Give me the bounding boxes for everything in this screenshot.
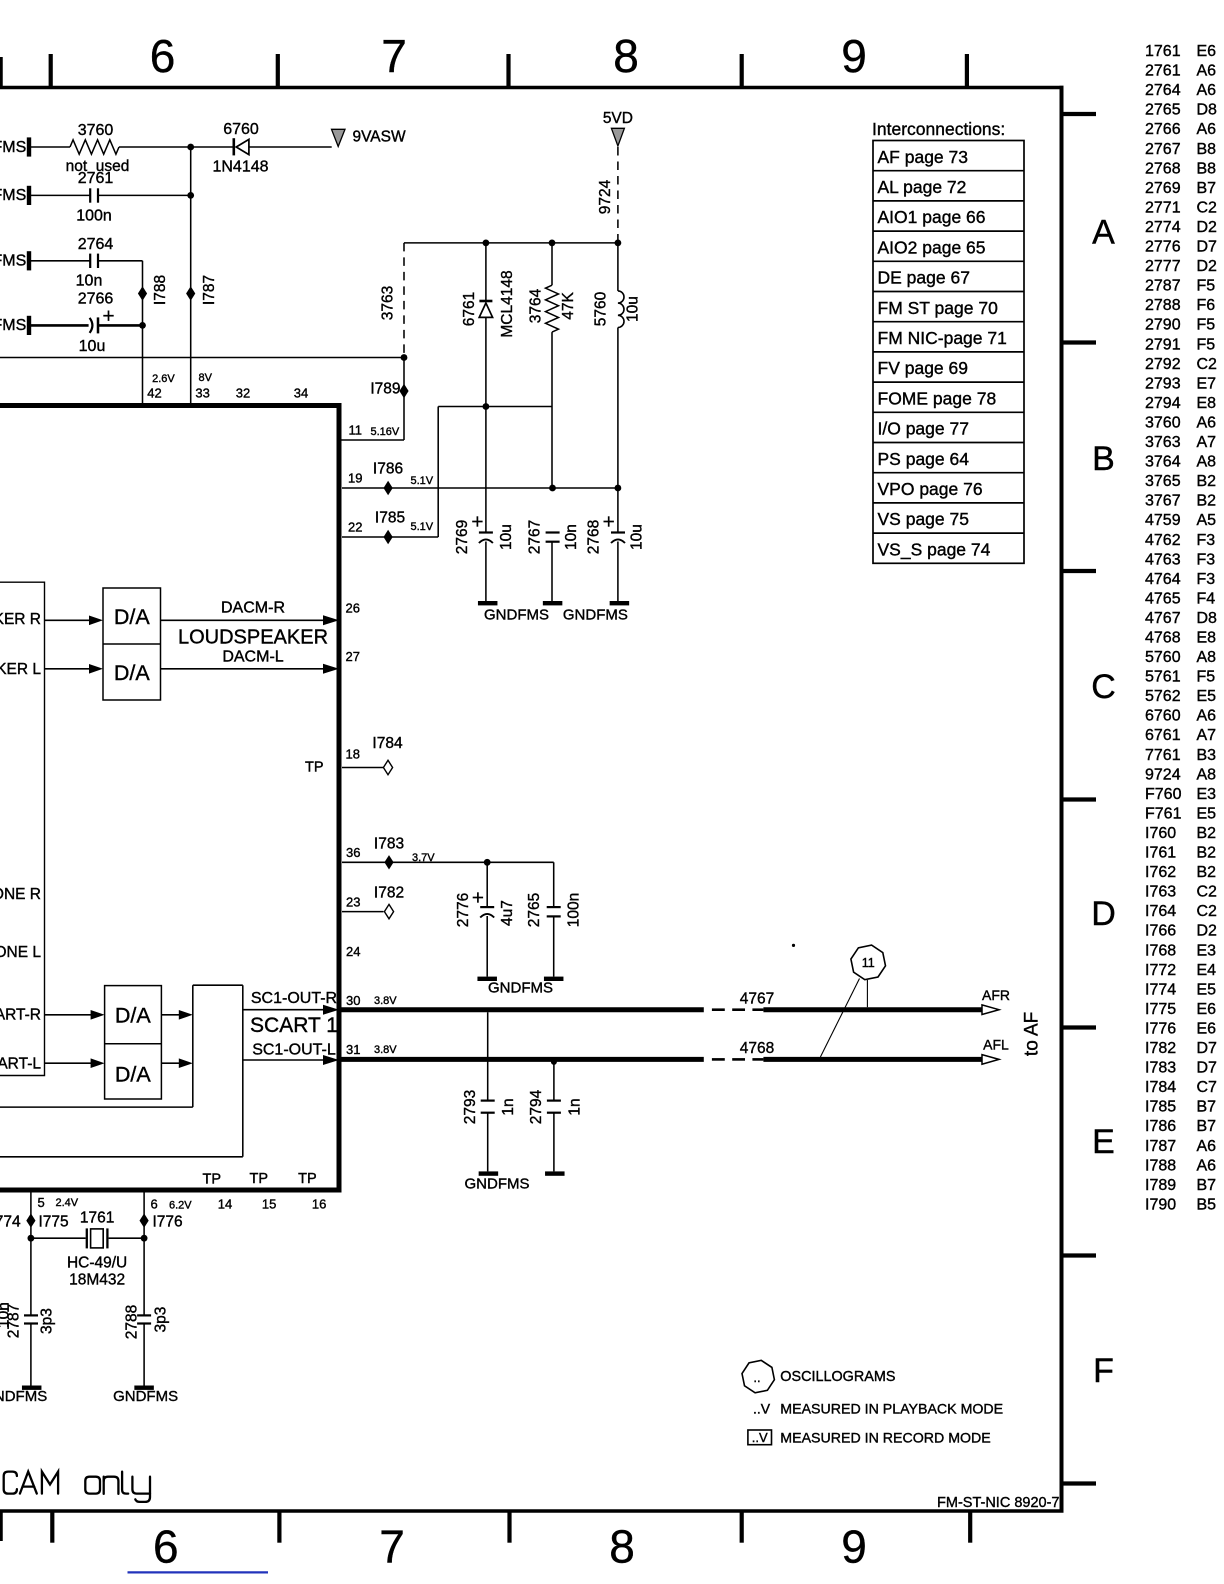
svg-text:4767: 4767	[740, 991, 774, 1008]
svg-text:5762: 5762	[1145, 688, 1181, 705]
svg-text:2765: 2765	[526, 893, 543, 927]
svg-text:I775: I775	[39, 1214, 69, 1231]
svg-text:..V: ..V	[752, 1430, 768, 1445]
svg-text:A: A	[1092, 214, 1115, 252]
svg-text:2790: 2790	[1145, 317, 1181, 334]
svg-text:I786: I786	[373, 461, 403, 478]
svg-text:FOME page 78: FOME page 78	[878, 388, 997, 408]
svg-text:..: ..	[753, 1370, 760, 1385]
svg-text:C2: C2	[1197, 884, 1218, 901]
svg-text:F3: F3	[1197, 571, 1216, 588]
svg-text:ONE L: ONE L	[0, 944, 41, 961]
svg-text:9724: 9724	[597, 179, 614, 214]
svg-text:7: 7	[381, 30, 407, 82]
svg-text:1761: 1761	[80, 1210, 114, 1227]
svg-text:2767: 2767	[1145, 141, 1181, 158]
svg-text:I787: I787	[201, 275, 218, 305]
svg-text:6761: 6761	[461, 292, 478, 326]
svg-text:2761: 2761	[78, 170, 114, 187]
svg-text:DE page 67: DE page 67	[878, 268, 970, 288]
svg-text:B2: B2	[1197, 493, 1217, 510]
svg-text:2764: 2764	[78, 236, 114, 253]
svg-text:5VD: 5VD	[603, 110, 633, 127]
svg-text:I768: I768	[1145, 942, 1176, 959]
svg-text:I/O page 77: I/O page 77	[878, 419, 969, 439]
svg-text:10n: 10n	[0, 1302, 12, 1328]
svg-text:31: 31	[346, 1042, 360, 1057]
svg-text:33: 33	[195, 386, 209, 401]
svg-text:ART-R: ART-R	[0, 1007, 41, 1024]
svg-text:6: 6	[151, 1197, 158, 1212]
svg-text:1n: 1n	[566, 1098, 583, 1115]
svg-text:18: 18	[346, 747, 360, 762]
svg-text:1761: 1761	[1145, 43, 1181, 60]
svg-text:4763: 4763	[1145, 551, 1181, 568]
svg-text:FM ST page 70: FM ST page 70	[878, 298, 999, 318]
svg-text:2768: 2768	[1145, 160, 1181, 177]
svg-text:I775: I775	[1145, 1001, 1176, 1018]
svg-text:3.8V: 3.8V	[374, 995, 397, 1007]
svg-text:GNDFMS: GNDFMS	[484, 607, 549, 624]
svg-text:5760: 5760	[1145, 649, 1181, 666]
svg-text:3.7V: 3.7V	[412, 852, 435, 864]
svg-text:2769: 2769	[1145, 180, 1181, 197]
svg-text:I788: I788	[152, 275, 169, 305]
svg-text:42: 42	[147, 386, 161, 401]
svg-text:1N4148: 1N4148	[212, 159, 268, 176]
svg-text:32: 32	[236, 386, 250, 401]
svg-text:F5: F5	[1197, 336, 1216, 353]
svg-text:A6: A6	[1197, 708, 1217, 725]
svg-text:E5: E5	[1197, 805, 1217, 822]
svg-text:FM-ST-NIC 8920-7: FM-ST-NIC 8920-7	[937, 1495, 1059, 1511]
svg-text:I766: I766	[1145, 923, 1176, 940]
svg-text:10u: 10u	[624, 296, 641, 322]
svg-text:2774: 2774	[1145, 219, 1181, 236]
svg-text:A7: A7	[1197, 727, 1217, 744]
svg-text:5: 5	[38, 1195, 45, 1210]
svg-text:A8: A8	[1197, 766, 1217, 783]
svg-text:F: F	[1093, 1352, 1114, 1390]
svg-text:4768: 4768	[740, 1040, 774, 1057]
svg-text:FV page 69: FV page 69	[878, 358, 968, 378]
svg-text:24: 24	[346, 944, 360, 959]
svg-text:2776: 2776	[455, 893, 472, 927]
svg-text:B5: B5	[1197, 1196, 1217, 1213]
svg-text:4765: 4765	[1145, 590, 1181, 607]
svg-text:C: C	[1091, 668, 1116, 706]
svg-text:5.1V: 5.1V	[411, 521, 434, 533]
svg-text:I782: I782	[374, 885, 404, 902]
svg-text:47K: 47K	[560, 292, 577, 320]
svg-text:B2: B2	[1197, 825, 1217, 842]
svg-text:2767: 2767	[526, 520, 543, 554]
svg-text:A6: A6	[1197, 1157, 1217, 1174]
svg-text:B7: B7	[1197, 180, 1217, 197]
svg-text:4762: 4762	[1145, 532, 1181, 549]
svg-text:AFR: AFR	[982, 987, 1010, 1003]
svg-text:B2: B2	[1197, 845, 1217, 862]
svg-text:A6: A6	[1197, 121, 1217, 138]
svg-text:SC1-OUT-L: SC1-OUT-L	[252, 1042, 336, 1059]
svg-text:E7: E7	[1197, 375, 1217, 392]
svg-text:E4: E4	[1197, 962, 1217, 979]
svg-text:AF page 73: AF page 73	[878, 147, 968, 167]
svg-text:MEASURED IN PLAYBACK MODE: MEASURED IN PLAYBACK MODE	[780, 1402, 1003, 1418]
svg-text:to AF: to AF	[1022, 1012, 1043, 1056]
svg-text:4768: 4768	[1145, 630, 1181, 647]
svg-text:23: 23	[346, 895, 360, 910]
svg-text:2791: 2791	[1145, 336, 1181, 353]
svg-text:B8: B8	[1197, 141, 1217, 158]
svg-text:I774: I774	[1145, 981, 1176, 998]
svg-text:E6: E6	[1197, 1021, 1217, 1038]
svg-text:AL page 72: AL page 72	[878, 177, 967, 197]
svg-text:C7: C7	[1197, 1079, 1218, 1096]
svg-text:VPO page 76: VPO page 76	[878, 479, 983, 499]
svg-text:3.8V: 3.8V	[374, 1044, 397, 1056]
svg-text:D7: D7	[1197, 239, 1218, 256]
svg-text:8V: 8V	[198, 372, 212, 384]
svg-text:3767: 3767	[1145, 493, 1181, 510]
svg-text:I776: I776	[1145, 1021, 1176, 1038]
svg-text:5.1V: 5.1V	[411, 475, 434, 487]
svg-text:2794: 2794	[528, 1089, 545, 1124]
svg-text:2769: 2769	[454, 520, 471, 554]
svg-text:KER L: KER L	[0, 661, 41, 678]
svg-text:D8: D8	[1197, 102, 1218, 119]
svg-text:B: B	[1092, 440, 1115, 478]
svg-text:I760: I760	[1145, 825, 1176, 842]
svg-text:DACM-R: DACM-R	[221, 600, 285, 617]
svg-text:2792: 2792	[1145, 356, 1181, 373]
svg-text:15: 15	[262, 1197, 276, 1212]
svg-text:I783: I783	[1145, 1060, 1176, 1077]
svg-text:B8: B8	[1197, 160, 1217, 177]
svg-text:I788: I788	[1145, 1157, 1176, 1174]
svg-text:A8: A8	[1197, 454, 1217, 471]
svg-text:E: E	[1092, 1123, 1115, 1161]
svg-text:3765: 3765	[1145, 473, 1181, 490]
svg-text:I761: I761	[1145, 845, 1176, 862]
svg-text:8: 8	[609, 1521, 635, 1573]
svg-text:7761: 7761	[1145, 747, 1181, 764]
svg-text:3p3: 3p3	[39, 1308, 56, 1334]
svg-text:HC-49/U: HC-49/U	[67, 1254, 127, 1271]
svg-text:7: 7	[379, 1521, 405, 1573]
svg-text:6760: 6760	[223, 121, 259, 138]
svg-text:FMS: FMS	[0, 253, 26, 270]
svg-text:A6: A6	[1197, 63, 1217, 80]
svg-text:B7: B7	[1197, 1177, 1217, 1194]
svg-text:1n: 1n	[500, 1098, 517, 1115]
svg-text:TP: TP	[203, 1172, 222, 1188]
svg-text:AIO2 page 65: AIO2 page 65	[878, 237, 986, 257]
svg-text:5760: 5760	[592, 291, 609, 326]
svg-text:B2: B2	[1197, 473, 1217, 490]
svg-text:I772: I772	[1145, 962, 1176, 979]
svg-text:FMS: FMS	[0, 317, 26, 334]
svg-text:E8: E8	[1197, 630, 1217, 647]
svg-text:9: 9	[841, 1521, 867, 1573]
svg-text:6761: 6761	[1145, 727, 1181, 744]
svg-text:C2: C2	[1197, 356, 1218, 373]
svg-text:9: 9	[841, 30, 867, 82]
svg-text:3763: 3763	[379, 286, 396, 320]
svg-text:3764: 3764	[527, 288, 544, 323]
svg-text:34: 34	[294, 386, 308, 401]
svg-text:TP: TP	[305, 760, 324, 776]
svg-text:2793: 2793	[462, 1090, 479, 1124]
svg-text:D2: D2	[1197, 923, 1218, 940]
svg-text:5.16V: 5.16V	[371, 426, 400, 438]
svg-text:TP: TP	[250, 1171, 269, 1187]
svg-text:LOUDSPEAKER: LOUDSPEAKER	[178, 627, 328, 649]
svg-text:30: 30	[346, 993, 360, 1008]
svg-text:F3: F3	[1197, 532, 1216, 549]
svg-text:26: 26	[346, 600, 360, 615]
svg-text:E3: E3	[1197, 942, 1217, 959]
svg-text:I787: I787	[1145, 1138, 1176, 1155]
svg-text:100n: 100n	[565, 893, 582, 927]
svg-text:OSCILLOGRAMS: OSCILLOGRAMS	[780, 1369, 895, 1385]
svg-text:6: 6	[153, 1521, 179, 1573]
svg-text:C2: C2	[1197, 199, 1218, 216]
svg-text:E3: E3	[1197, 786, 1217, 803]
svg-text:F761: F761	[1145, 805, 1182, 822]
svg-text:4u7: 4u7	[499, 900, 516, 926]
svg-text:A5: A5	[1197, 512, 1217, 529]
svg-text:10u: 10u	[79, 338, 106, 355]
svg-text:E5: E5	[1197, 981, 1217, 998]
svg-text:100n: 100n	[76, 208, 112, 225]
svg-text:A8: A8	[1197, 649, 1217, 666]
svg-text:2766: 2766	[1145, 121, 1181, 138]
svg-text:2788: 2788	[123, 1305, 140, 1339]
svg-text:VS page 75: VS page 75	[878, 509, 969, 529]
svg-text:2771: 2771	[1145, 199, 1181, 216]
svg-text:DACM-L: DACM-L	[222, 649, 283, 666]
svg-text:TP: TP	[298, 1171, 317, 1187]
svg-text:MCL4148: MCL4148	[499, 270, 516, 337]
svg-text:GNDFMS: GNDFMS	[113, 1388, 178, 1405]
svg-text:D/A: D/A	[114, 661, 151, 685]
svg-text:VS_S page 74: VS_S page 74	[878, 539, 991, 560]
svg-text:19: 19	[348, 471, 362, 486]
svg-text:4767: 4767	[1145, 610, 1181, 627]
svg-text:22: 22	[348, 520, 362, 535]
svg-text:GNDFMS: GNDFMS	[465, 1175, 530, 1192]
svg-text:2787: 2787	[1145, 278, 1181, 295]
svg-text:AFL: AFL	[983, 1037, 1009, 1053]
svg-text:FMS: FMS	[0, 139, 26, 156]
svg-text:I789: I789	[1145, 1177, 1176, 1194]
svg-text:MEASURED IN RECORD MODE: MEASURED IN RECORD MODE	[780, 1431, 990, 1447]
svg-text:A6: A6	[1197, 82, 1217, 99]
svg-text:10u: 10u	[498, 524, 515, 550]
svg-text:..V: ..V	[753, 1401, 771, 1417]
svg-text:18M432: 18M432	[69, 1271, 125, 1288]
svg-text:27: 27	[346, 649, 360, 664]
svg-text:A6: A6	[1197, 1138, 1217, 1155]
svg-text:I785: I785	[375, 510, 405, 527]
svg-text:2793: 2793	[1145, 375, 1181, 392]
svg-text:B3: B3	[1197, 747, 1217, 764]
svg-text:I764: I764	[1145, 903, 1176, 920]
svg-text:F6: F6	[1197, 297, 1216, 314]
svg-text:2765: 2765	[1145, 102, 1181, 119]
svg-text:AIO1 page 66: AIO1 page 66	[878, 207, 986, 227]
svg-text:11: 11	[862, 956, 875, 970]
svg-text:9724: 9724	[1145, 766, 1181, 783]
svg-text:14: 14	[218, 1197, 232, 1212]
svg-text:10u: 10u	[628, 524, 645, 550]
svg-text:I762: I762	[1145, 864, 1176, 881]
svg-text:PS page 64: PS page 64	[878, 449, 970, 469]
svg-text:B7: B7	[1197, 1099, 1217, 1116]
svg-text:3760: 3760	[1145, 415, 1181, 432]
svg-text:E6: E6	[1197, 43, 1217, 60]
svg-text:2788: 2788	[1145, 297, 1181, 314]
svg-text:I785: I785	[1145, 1099, 1176, 1116]
svg-text:A6: A6	[1197, 415, 1217, 432]
svg-text:2766: 2766	[78, 291, 114, 308]
svg-text:B2: B2	[1197, 864, 1217, 881]
svg-text:Interconnections:: Interconnections:	[872, 119, 1005, 139]
svg-text:I784: I784	[372, 735, 403, 752]
svg-text:9VASW: 9VASW	[353, 129, 406, 146]
svg-text:6760: 6760	[1145, 708, 1181, 725]
svg-text:F760: F760	[1145, 786, 1182, 803]
svg-text:KER R: KER R	[0, 611, 41, 628]
svg-text:FM NIC-page 71: FM NIC-page 71	[878, 328, 1007, 348]
svg-text:2764: 2764	[1145, 82, 1181, 99]
svg-text:I774: I774	[0, 1214, 21, 1231]
svg-text:D/A: D/A	[115, 1062, 152, 1086]
svg-text:2.4V: 2.4V	[56, 1197, 79, 1209]
svg-text:SC1-OUT-R: SC1-OUT-R	[251, 990, 337, 1007]
svg-text:D/A: D/A	[114, 605, 151, 629]
svg-text:F5: F5	[1197, 669, 1216, 686]
svg-text:I783: I783	[374, 836, 404, 853]
svg-text:2776: 2776	[1145, 239, 1181, 256]
svg-text:2768: 2768	[585, 520, 602, 554]
svg-text:I784: I784	[1145, 1079, 1176, 1096]
svg-text:C2: C2	[1197, 903, 1218, 920]
svg-text:2.6V: 2.6V	[152, 373, 175, 385]
svg-text:I763: I763	[1145, 884, 1176, 901]
svg-text:2794: 2794	[1145, 395, 1181, 412]
svg-text:F5: F5	[1197, 317, 1216, 334]
svg-text:6.2V: 6.2V	[169, 1200, 192, 1212]
svg-text:E6: E6	[1197, 1001, 1217, 1018]
svg-text:GNDFMS: GNDFMS	[0, 1388, 47, 1405]
svg-text:ONE R: ONE R	[0, 886, 41, 903]
svg-text:5761: 5761	[1145, 669, 1181, 686]
svg-text:F3: F3	[1197, 551, 1216, 568]
svg-text:2761: 2761	[1145, 63, 1181, 80]
svg-text:I789: I789	[370, 381, 400, 398]
svg-text:10n: 10n	[563, 524, 580, 550]
svg-text:D/A: D/A	[115, 1003, 152, 1027]
svg-text:4759: 4759	[1145, 512, 1181, 529]
svg-text:F5: F5	[1197, 278, 1216, 295]
svg-text:B7: B7	[1197, 1118, 1217, 1135]
svg-text:D8: D8	[1197, 610, 1218, 627]
svg-text:2777: 2777	[1145, 258, 1181, 275]
svg-text:I776: I776	[153, 1214, 183, 1231]
svg-text:3763: 3763	[1145, 434, 1181, 451]
svg-text:D2: D2	[1197, 258, 1218, 275]
svg-text:I786: I786	[1145, 1118, 1176, 1135]
svg-text:F4: F4	[1197, 590, 1216, 607]
svg-text:GNDFMS: GNDFMS	[563, 607, 628, 624]
svg-text:D7: D7	[1197, 1040, 1218, 1057]
svg-text:3p3: 3p3	[153, 1307, 170, 1333]
svg-text:D7: D7	[1197, 1060, 1218, 1077]
svg-text:E8: E8	[1197, 395, 1217, 412]
svg-text:3764: 3764	[1145, 454, 1181, 471]
svg-text:ART-L: ART-L	[0, 1056, 41, 1073]
svg-text:I790: I790	[1145, 1196, 1176, 1213]
svg-text:GNDFMS: GNDFMS	[488, 979, 553, 996]
svg-text:D2: D2	[1197, 219, 1218, 236]
svg-text:8: 8	[613, 30, 639, 82]
svg-text:6: 6	[150, 30, 176, 82]
svg-text:4764: 4764	[1145, 571, 1181, 588]
svg-text:A7: A7	[1197, 434, 1217, 451]
svg-text:3760: 3760	[78, 122, 114, 139]
svg-text:36: 36	[346, 845, 360, 860]
svg-text:10n: 10n	[76, 272, 103, 289]
svg-text:FMS: FMS	[0, 187, 26, 204]
svg-text:SCART 1: SCART 1	[250, 1014, 338, 1037]
svg-text:D: D	[1091, 895, 1116, 933]
svg-text:16: 16	[312, 1197, 326, 1212]
svg-text:I782: I782	[1145, 1040, 1176, 1057]
svg-text:11: 11	[349, 423, 363, 438]
svg-text:E5: E5	[1197, 688, 1217, 705]
